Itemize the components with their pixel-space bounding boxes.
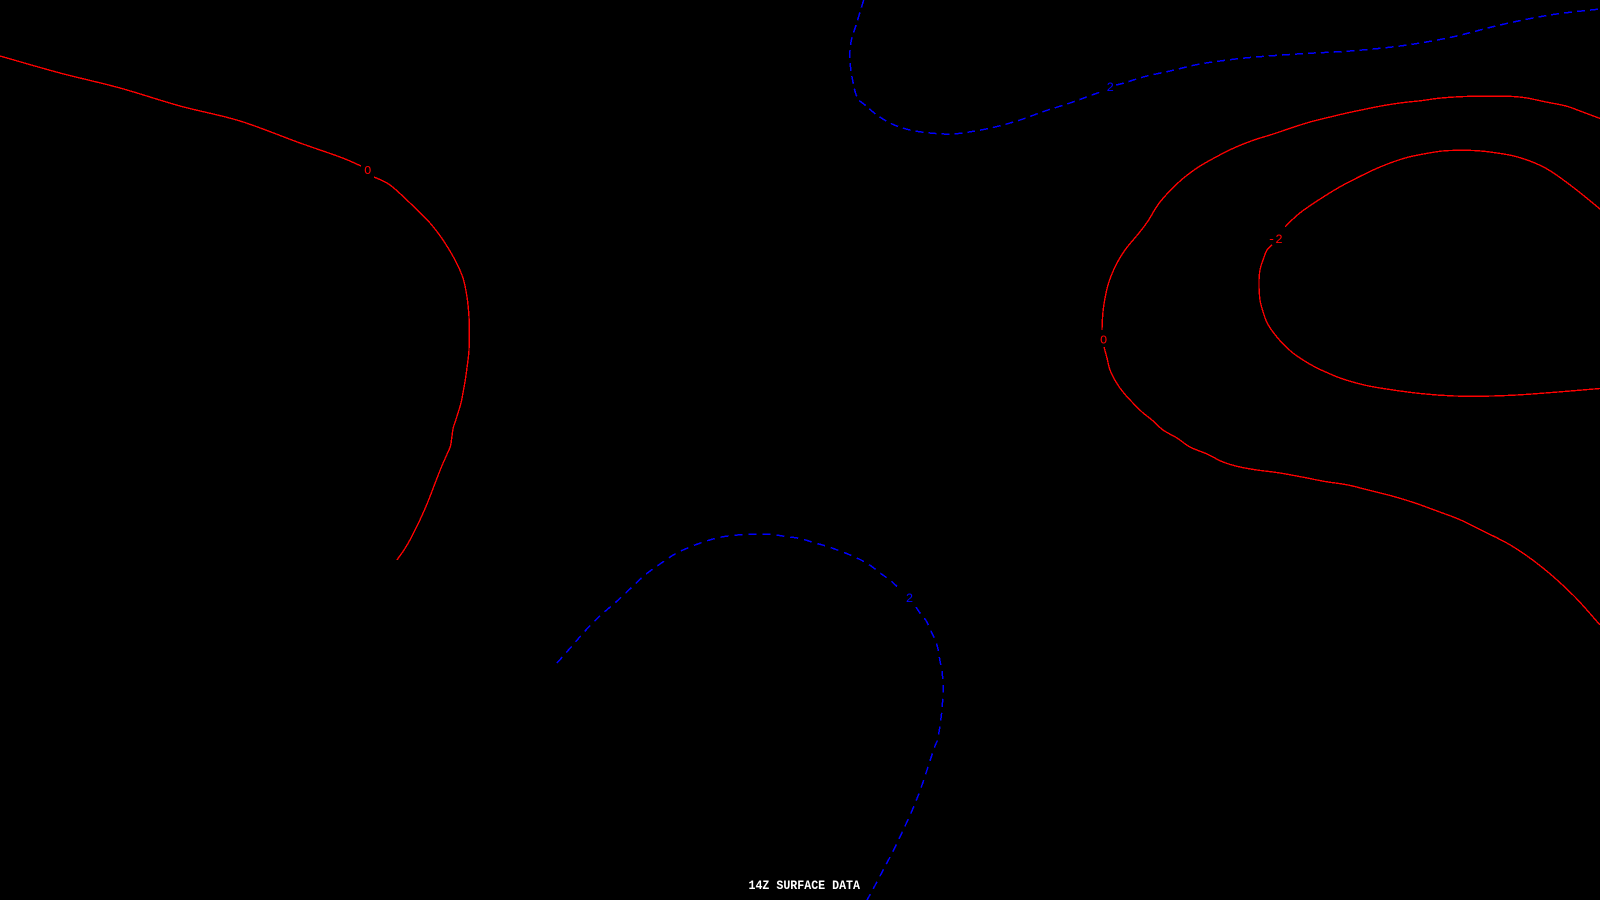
contour 0 (red solid, upper-left) part 1 xyxy=(0,56,361,166)
svg-text:O: O xyxy=(364,164,371,178)
svg-text:2: 2 xyxy=(1107,81,1115,95)
svg-text:14Z SURFACE DATA: 14Z SURFACE DATA xyxy=(749,879,861,893)
contour -2 (red solid, right inner) part 2 xyxy=(1259,245,1600,396)
contour 2 (blue dashed, top) part 1 xyxy=(850,0,1103,134)
contour 2 (blue dashed, bottom) part 1 xyxy=(557,534,897,663)
contour 0 (red solid, right) part 1 xyxy=(1102,96,1600,330)
contour -2 (red solid, right inner) part 1 xyxy=(1285,150,1600,227)
contour 2 (blue dashed, bottom) part 2 xyxy=(867,607,943,900)
svg-text:2: 2 xyxy=(906,592,914,606)
contour 0 (red solid, right) part 2 xyxy=(1104,347,1600,625)
contour 2 (blue dashed, top) part 2 xyxy=(1116,9,1600,85)
contour 0 (red solid, upper-left) part 2 xyxy=(374,177,469,560)
svg-text:O: O xyxy=(1100,334,1107,348)
svg-text:-2: -2 xyxy=(1268,233,1283,247)
